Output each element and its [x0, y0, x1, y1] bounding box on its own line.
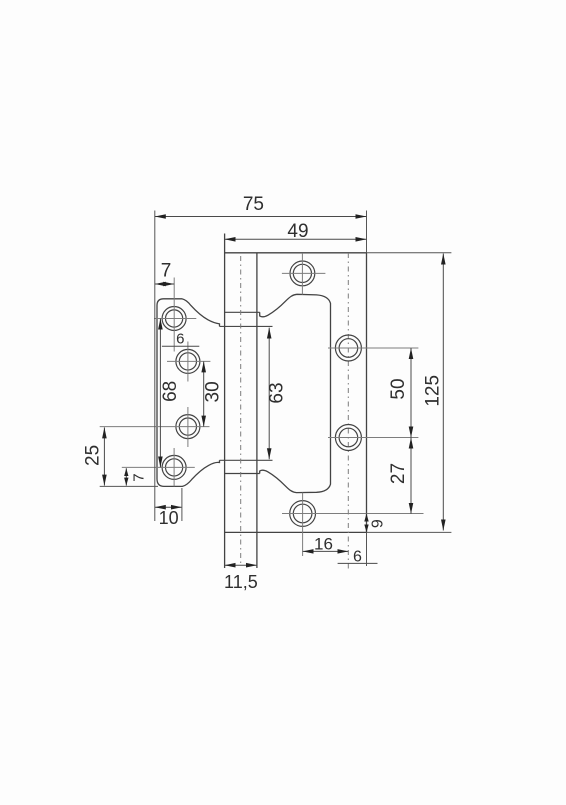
- hole R mid1: [335, 335, 361, 361]
- dim 7 top line: [155, 283, 174, 285]
- svg-text:63: 63: [267, 382, 288, 403]
- svg-text:27: 27: [388, 463, 409, 484]
- dim 11,5 line: [225, 564, 257, 566]
- knuckle right edge: [256, 253, 258, 568]
- right column centerline: [347, 253, 349, 570]
- knuckle centerline: [240, 256, 242, 565]
- left leaf edge line at knuckle bottom (63 extension): [220, 459, 273, 461]
- hole L1 center mark: [154, 318, 196, 320]
- hole R mid1 center mark / 50 extension: [328, 347, 418, 349]
- dim 6 right line: [338, 562, 378, 564]
- hole L2 center mark: [167, 342, 210, 382]
- svg-text:68: 68: [160, 381, 181, 402]
- svg-text:6: 6: [176, 331, 184, 348]
- svg-text:30: 30: [203, 381, 224, 402]
- svg-text:75: 75: [243, 194, 264, 215]
- dim 50 line: [410, 348, 412, 438]
- left leaf edge line at knuckle top (63 extension): [220, 325, 273, 327]
- left leaf outline: [157, 299, 220, 487]
- hole L1: [162, 307, 186, 331]
- svg-text:7: 7: [130, 473, 147, 481]
- hole R mid2 center mark / 50-27 extension: [328, 437, 418, 439]
- dim 63 line: [268, 328, 270, 460]
- dim 75 line: [155, 216, 367, 218]
- hole L4: [162, 455, 186, 479]
- dim 125 line: [442, 254, 444, 531]
- inner cutout (second leaf contour): [260, 294, 331, 492]
- dim 10 right extension: [181, 488, 183, 521]
- dim 49 line: [225, 238, 367, 240]
- svg-text:125: 125: [422, 375, 443, 407]
- right leaf bottom edge: [225, 531, 367, 533]
- dim 75 extension right: [366, 211, 368, 253]
- hole R mid2: [335, 425, 361, 451]
- knuckle fold line bottom: [225, 473, 260, 475]
- right leaf top edge extension to 125 dim: [367, 252, 452, 254]
- hole R top center mark: [282, 253, 326, 295]
- dim 6 left line: [162, 345, 199, 347]
- svg-text:16: 16: [314, 535, 333, 554]
- hole L2: [176, 349, 200, 373]
- knuckle fold line top: [225, 311, 260, 313]
- hole R bottom center mark / 27 extension: [282, 493, 424, 556]
- right leaf right edge: [366, 253, 368, 533]
- dim 27 line: [410, 438, 412, 514]
- svg-text:10: 10: [159, 508, 179, 528]
- hole L4 center mark: [122, 448, 195, 486]
- dim 16 line: [303, 550, 349, 552]
- svg-text:50: 50: [388, 378, 409, 399]
- right leaf top edge: [225, 252, 367, 254]
- dim 25 line: [103, 427, 105, 485]
- hole R bottom: [290, 501, 316, 527]
- svg-text:9: 9: [369, 519, 386, 528]
- dim 75 extension left: [154, 211, 156, 522]
- svg-text:11,5: 11,5: [224, 572, 258, 592]
- right edge extension below: [366, 532, 368, 566]
- dim 68 line: [159, 319, 161, 468]
- hole L3 center mark: [100, 407, 210, 447]
- hole R top: [290, 261, 315, 286]
- svg-text:25: 25: [83, 445, 104, 466]
- dim 30 line: [203, 361, 205, 426]
- dim 9 line: [366, 514, 368, 533]
- hole L3: [176, 415, 200, 439]
- dim 7 top extension right: [173, 278, 175, 352]
- dim 10 line: [155, 506, 182, 508]
- knuckle left edge: [224, 234, 226, 569]
- right leaf bottom edge extension to 125 dim: [367, 531, 452, 533]
- svg-text:6: 6: [353, 549, 362, 566]
- dim 25 bottom extension: [100, 485, 158, 487]
- dim 7 left line: [125, 468, 127, 485]
- svg-text:7: 7: [161, 261, 172, 282]
- svg-text:49: 49: [287, 221, 308, 242]
